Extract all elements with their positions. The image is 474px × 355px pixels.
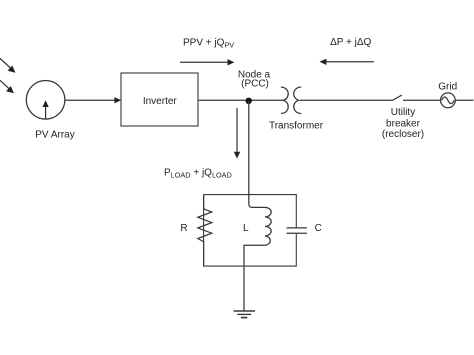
node a junction dot bbox=[246, 98, 252, 104]
wire node a down to load bbox=[249, 101, 265, 207]
svg-text:C: C bbox=[315, 223, 322, 234]
svg-text:PPV + jQPV: PPV + jQPV bbox=[183, 37, 234, 49]
PV array internal arrow bbox=[43, 100, 49, 118]
ground symbol bbox=[234, 311, 255, 318]
PV array source circle bbox=[26, 81, 65, 120]
svg-text:PLOAD + jQLOAD: PLOAD + jQLOAD bbox=[164, 168, 232, 180]
load enclosure rectangle bbox=[204, 195, 297, 267]
sun ray arrow 2 bbox=[0, 79, 14, 94]
wire grid to edge bbox=[455, 99, 473, 101]
capacitor C plates bbox=[287, 228, 307, 233]
svg-text:Utility: Utility bbox=[391, 107, 415, 118]
svg-text:(recloser): (recloser) bbox=[382, 129, 424, 140]
svg-text:Grid: Grid bbox=[438, 81, 457, 92]
svg-text:Inverter: Inverter bbox=[143, 96, 178, 107]
sun ray arrow 1 bbox=[0, 57, 15, 73]
svg-text:breaker: breaker bbox=[386, 119, 421, 130]
grid AC source circle bbox=[441, 93, 456, 108]
inductor L coil bbox=[244, 207, 271, 266]
utility breaker blade (open switch) bbox=[393, 95, 403, 100]
svg-text:(PCC): (PCC) bbox=[241, 79, 269, 90]
wire inverter to transformer bbox=[198, 99, 283, 101]
wire load to ground bbox=[243, 266, 245, 311]
inverter box U1 bbox=[121, 73, 198, 126]
wire breaker to grid bbox=[403, 99, 441, 101]
deltaP flow arrow bbox=[320, 59, 374, 65]
svg-text:ΔP + jΔQ: ΔP + jΔQ bbox=[330, 37, 371, 48]
svg-text:L: L bbox=[243, 223, 249, 234]
load flow down arrow bbox=[234, 108, 240, 159]
grid sine wave bbox=[442, 97, 455, 104]
svg-text:PV Array: PV Array bbox=[35, 129, 74, 140]
resistor R zigzag bbox=[198, 195, 212, 267]
svg-text:Transformer: Transformer bbox=[269, 121, 324, 132]
transformer T1 secondary winding bbox=[294, 87, 301, 113]
transformer T1 primary winding bbox=[281, 87, 288, 113]
svg-text:R: R bbox=[180, 223, 187, 234]
wire transformer to breaker bbox=[300, 99, 393, 101]
PPV flow arrow bbox=[180, 59, 234, 65]
wire PV to inverter bbox=[65, 97, 121, 103]
